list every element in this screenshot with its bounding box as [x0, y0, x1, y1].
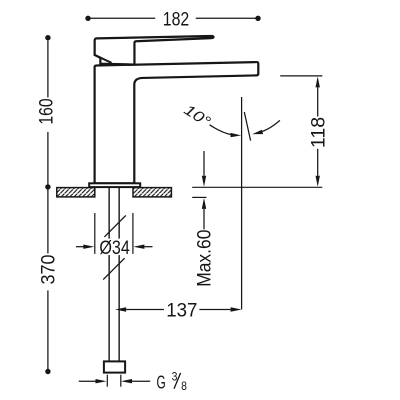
dimension 182 line right segment — [196, 17, 258, 19]
pipe break mark upper — [104, 215, 125, 237]
dimension 118 top arrow — [316, 76, 320, 87]
dimension 160/370 vertical line segment 2 — [47, 132, 49, 254]
supply pipe right segment upper — [118, 188, 120, 239]
dimension 182 line left segment — [88, 17, 155, 19]
G3/8 threaded nut — [104, 361, 125, 372]
spout outlet extension line — [280, 75, 322, 77]
dimension 182 right dot — [255, 16, 260, 21]
dimension 118 bottom arrow — [316, 176, 320, 187]
svg-text:Ø34: Ø34 — [99, 237, 130, 259]
countertop left slab (hatched) — [57, 188, 95, 197]
dimension Max.60 top arrow — [202, 176, 206, 187]
dimension 160/370 middle dot — [45, 184, 50, 189]
dimension 160/370 vertical line segment 3 — [47, 290, 49, 371]
svg-text:118: 118 — [307, 117, 329, 148]
dimension 182 left dot — [85, 16, 90, 21]
svg-text:137: 137 — [166, 299, 197, 321]
dimension 370 bottom dot — [45, 369, 50, 374]
countertop right slab (hatched) — [133, 188, 171, 197]
svg-text:182: 182 — [163, 9, 190, 31]
dimension O34 left arrow — [83, 245, 94, 249]
dimension G3/8 right arrow — [121, 379, 132, 383]
angle arc right arrow — [252, 130, 263, 134]
base flange — [89, 183, 140, 187]
dimension 118 line lower segment — [317, 149, 319, 176]
dimension G3/8 right tail — [132, 380, 150, 382]
dimension O34 left extension line — [94, 213, 96, 254]
svg-text:8: 8 — [181, 379, 187, 393]
dimension O34 right extension line — [132, 213, 134, 254]
svg-text:G: G — [157, 372, 166, 393]
handle lever — [95, 36, 214, 65]
dimension 160 top dot — [45, 35, 50, 40]
angle arc left arrow — [230, 133, 241, 137]
thread size fraction slash — [174, 373, 181, 389]
countertop bottom surface extension line — [192, 196, 206, 198]
handle front chamfer — [95, 55, 112, 63]
countertop top surface extension line — [192, 186, 322, 188]
dimension 118 line upper segment — [317, 87, 319, 116]
dimension 137 right arrow — [231, 307, 242, 311]
dimension Max.60 line lower segment — [203, 209, 205, 229]
dimension G3/8 left tick — [106, 375, 108, 387]
dimension G3/8 right tick — [120, 375, 122, 387]
dimension Max.60 line upper segment — [203, 151, 205, 176]
faucet body and spout — [95, 62, 259, 183]
dimension 160/370 vertical line segment 1 — [47, 40, 49, 97]
dimension 137 left arrow — [115, 307, 126, 311]
dimension O34 right tail — [144, 246, 152, 248]
svg-text:370: 370 — [39, 255, 60, 285]
pipe break mark lower — [103, 258, 124, 279]
angle arc right — [259, 120, 280, 132]
dimension 137 line left segment — [126, 309, 164, 311]
dimension G3/8 left tail — [79, 380, 96, 382]
dimension Max.60 bottom arrow — [202, 198, 206, 209]
supply pipe right segment lower — [118, 255, 120, 361]
svg-text:160: 160 — [36, 98, 57, 124]
dimension G3/8 left arrow — [96, 379, 107, 383]
svg-text:Max.60: Max.60 — [195, 230, 216, 287]
dimension O34 left tail — [76, 246, 84, 248]
angle arc left — [210, 125, 233, 135]
dimension 137 line right segment — [199, 309, 230, 311]
water stream tilted line 10 deg — [244, 112, 250, 141]
supply pipe left segment upper — [108, 188, 110, 239]
supply pipe left segment lower — [108, 255, 110, 361]
dimension O34 right arrow — [133, 245, 144, 249]
water stream vertical line — [241, 97, 243, 309]
